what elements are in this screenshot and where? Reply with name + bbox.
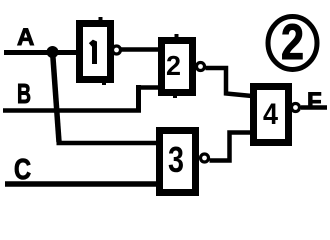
gate 2 output bubble: [197, 63, 205, 71]
gate 4 body: [254, 87, 289, 143]
figure number circle: [268, 17, 317, 70]
svg-text:2: 2: [281, 14, 304, 70]
svg-text:2: 2: [166, 50, 181, 81]
gate 1 bottom tick: [102, 81, 106, 85]
wire C to gate 3 lower input: [5, 181, 158, 187]
gate 2 top tick: [175, 34, 179, 39]
gate 3 output bubble: [201, 154, 209, 162]
wire gate 1 output to gate 2 upper input: [121, 47, 160, 52]
wire gate 2 output to gate 4 upper input: [206, 68, 253, 96]
wire B horizontal: [3, 108, 141, 113]
gate 1 output bubble: [113, 46, 121, 54]
gate 1 top tick: [99, 17, 103, 22]
gate 1 body: [80, 24, 111, 80]
wire A branch vertical: [53, 51, 60, 142]
svg-text:A: A: [17, 24, 34, 51]
wire B vertical up: [136, 85, 141, 112]
svg-text:3: 3: [168, 139, 184, 180]
gate 4 output bubble: [292, 104, 300, 112]
wire gate 3 output to gate 4 lower input: [210, 133, 253, 161]
wire F output: [301, 105, 327, 110]
svg-text:B: B: [17, 78, 31, 109]
wire A input: [4, 50, 77, 55]
wire B to gate 2 lower input: [139, 85, 161, 90]
svg-text:C: C: [14, 154, 31, 186]
gate 2 body: [162, 41, 193, 93]
gate 2 bottom tick: [173, 94, 177, 98]
svg-text:F: F: [307, 88, 322, 115]
gate 1 label: [91, 42, 95, 65]
wire A branch to gate 3: [57, 141, 159, 146]
svg-text:4: 4: [263, 98, 278, 131]
junction dot on A wire: [47, 46, 59, 58]
gate 3 body: [160, 131, 196, 193]
